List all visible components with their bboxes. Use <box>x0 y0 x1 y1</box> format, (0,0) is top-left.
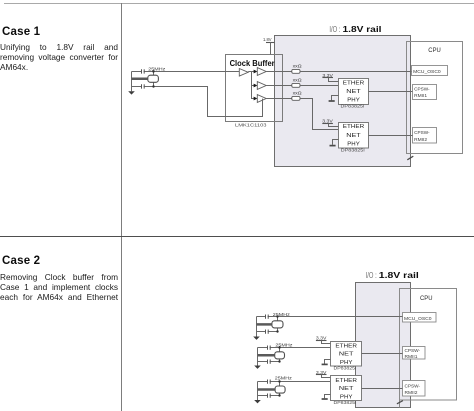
svg-text:CPU: CPU <box>420 295 433 302</box>
svg-text:RMII2: RMII2 <box>405 390 418 396</box>
svg-text:xxΩ: xxΩ <box>293 90 303 95</box>
wire U8 to CPSW-RMII2 <box>362 388 403 390</box>
wire input chain <box>248 72 254 99</box>
wire XOUT bottom <box>132 87 263 117</box>
wire XOUT <box>257 331 278 333</box>
wire gnd rail <box>131 72 133 92</box>
svg-text:NET: NET <box>346 133 361 139</box>
CPU U2 box <box>407 42 463 154</box>
ground for U4 <box>333 140 339 145</box>
capacitor C2 <box>142 84 144 88</box>
crystal case ground bar <box>258 388 276 391</box>
CPU U6 box <box>400 289 457 401</box>
svg-text:ETHER: ETHER <box>335 343 357 349</box>
svg-text:1.8V rail: 1.8V rail <box>343 25 382 34</box>
crystal Y2 body <box>277 317 279 321</box>
crystal case ground bar <box>132 78 148 81</box>
svg-text:xxΩ: xxΩ <box>293 78 303 83</box>
svg-text:LMK1C1103: LMK1C1103 <box>235 122 267 127</box>
svg-text:ETHER: ETHER <box>343 124 365 130</box>
wire XIN top <box>132 71 240 73</box>
arrow into buffer 3 <box>254 97 258 101</box>
wire U4 to CPSW-RMII2 <box>369 135 413 137</box>
svg-text:DP83825I: DP83825I <box>341 104 365 109</box>
gnd rail <box>257 382 259 401</box>
wire XOUT <box>258 395 280 397</box>
wire U3 to CPSW-RMII1 <box>369 91 413 93</box>
svg-text:I/O :: I/O : <box>366 271 377 280</box>
junction bottom <box>278 360 280 362</box>
svg-text:ETHER: ETHER <box>335 378 357 384</box>
pin CPSW-RMII2 <box>413 128 437 144</box>
table top border <box>4 3 474 5</box>
net tie mark below CPU <box>399 400 401 408</box>
capacitor C8 <box>268 394 270 398</box>
wire XIN to PHY <box>258 347 331 349</box>
junction top <box>278 346 280 348</box>
junction bottom <box>276 330 278 332</box>
buffer 3 <box>257 95 266 103</box>
svg-text:CPSW-: CPSW- <box>414 130 430 136</box>
svg-text:PHY: PHY <box>347 141 360 147</box>
clock buffer U1 box <box>226 55 283 122</box>
buffer 2 <box>257 82 266 90</box>
junction top <box>276 315 278 317</box>
capacitor C6 <box>268 360 270 364</box>
ground for U8 <box>325 395 331 399</box>
pin MCU_OSC0 <box>403 313 437 323</box>
I/O 1.8V rail power domain box <box>275 36 411 167</box>
svg-text:RMII2: RMII2 <box>414 137 427 143</box>
wire row2 to PHY1 <box>300 85 339 87</box>
table row divider <box>0 236 474 238</box>
wire XOUT <box>258 361 280 363</box>
svg-text:I/O :: I/O : <box>329 25 340 34</box>
wire row1 to MCU_OSC0 <box>300 71 412 73</box>
svg-text:MCU_OSC0: MCU_OSC0 <box>413 69 441 75</box>
junction bottom <box>278 394 280 396</box>
pin CPSW-RMII2 <box>403 381 426 397</box>
net tie mark below CPU <box>407 156 413 160</box>
svg-text:NET: NET <box>339 352 354 358</box>
svg-text:DP83825I: DP83825I <box>341 148 365 153</box>
resistor R3 <box>292 96 300 100</box>
svg-text:25MHz: 25MHz <box>273 312 291 317</box>
crystal Y1 body <box>153 72 155 76</box>
panel text: Case 2 description <box>0 273 118 302</box>
ground <box>128 91 135 94</box>
svg-text:PHY: PHY <box>347 98 360 104</box>
svg-text:25MHz: 25MHz <box>275 376 293 381</box>
wire XIN to MCU_OSC0 <box>257 316 403 318</box>
ethernet phy U7 <box>331 342 362 367</box>
svg-text:RMII1: RMII1 <box>405 354 418 360</box>
ground for U3 <box>332 96 339 101</box>
svg-text:Clock Buffer: Clock Buffer <box>230 58 276 68</box>
svg-text:MCU_OSC0: MCU_OSC0 <box>404 316 432 322</box>
wire row1 buffer to resistor <box>266 71 292 73</box>
svg-text:RMII1: RMII1 <box>414 93 427 99</box>
ground <box>254 400 261 403</box>
wire row3 to PHY2 <box>300 99 339 130</box>
ethernet phy U8 <box>331 376 362 401</box>
junction top <box>152 70 154 72</box>
gnd rail <box>257 348 259 366</box>
table vertical separator <box>121 3 123 411</box>
svg-text:CPSW-: CPSW- <box>405 383 421 389</box>
svg-text:1.8V: 1.8V <box>263 37 272 42</box>
gnd rail <box>256 317 258 337</box>
wire row2 buffer to resistor <box>266 85 292 87</box>
svg-text:1.8V rail: 1.8V rail <box>379 271 419 280</box>
ethernet phy U3 <box>339 79 369 105</box>
svg-text:DP83825I: DP83825I <box>334 365 357 370</box>
ground <box>254 366 261 369</box>
I/O 1.8V rail power domain box <box>356 283 411 408</box>
ethernet phy U4 <box>339 123 369 149</box>
svg-text:3.3V: 3.3V <box>316 335 327 340</box>
capacitor C7 <box>268 380 270 384</box>
panel text: Case 2 heading <box>2 255 40 267</box>
panel text: Case 1 heading <box>2 26 40 38</box>
crystal case ground bar <box>257 323 272 326</box>
capacitor C1 <box>142 69 144 73</box>
wire row3 buffer to resistor <box>266 98 292 100</box>
svg-text:3.3V: 3.3V <box>322 118 333 123</box>
resistor R2 <box>292 83 300 87</box>
svg-text:CPSW-: CPSW- <box>405 348 421 354</box>
junction bottom <box>152 85 154 87</box>
svg-text:CPU: CPU <box>428 47 441 54</box>
wire U7 to CPSW-RMII1 <box>362 353 403 355</box>
pin CPSW-RMII1 <box>413 85 437 100</box>
buffer input stage <box>239 69 248 77</box>
junction top <box>278 380 280 382</box>
svg-text:DP83825I: DP83825I <box>334 400 357 405</box>
crystal Y3 body <box>279 348 281 352</box>
capacitor C5 <box>268 346 270 350</box>
svg-text:ETHER: ETHER <box>343 80 365 86</box>
pin MCU_OSC0 <box>412 66 448 76</box>
svg-text:25MHz: 25MHz <box>148 66 166 71</box>
capacitor C4 <box>266 330 268 334</box>
arrow into buffer 1 <box>254 70 258 74</box>
ground for U7 <box>325 360 331 364</box>
svg-text:NET: NET <box>339 386 354 392</box>
crystal case ground bar <box>258 354 275 357</box>
pin CPSW-RMII1 <box>403 347 426 360</box>
crystal Y4 body <box>279 382 281 387</box>
svg-text:25MHz: 25MHz <box>275 343 293 348</box>
ground <box>253 337 260 340</box>
svg-text:NET: NET <box>346 89 361 95</box>
wire XIN to PHY <box>258 381 331 383</box>
svg-text:xxΩ: xxΩ <box>293 63 303 68</box>
buffer 1 <box>257 68 266 76</box>
arrow into buffer 2 <box>254 84 258 88</box>
panel text: Case 1 description <box>0 42 118 73</box>
svg-text:CPSW-: CPSW- <box>414 86 430 92</box>
capacitor C3 <box>266 315 268 319</box>
resistor R1 <box>292 69 300 73</box>
